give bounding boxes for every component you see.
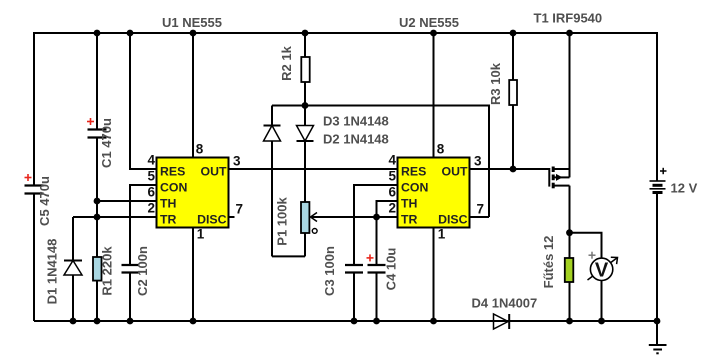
svg-text:C5 470u: C5 470u [37,176,52,226]
wire: U2 pin 7 DISC lead [470,216,490,218]
svg-text:7: 7 [236,202,244,217]
U1 internal pin names [160,165,227,227]
wire: R1 bottom lead [96,281,98,321]
wire: U1 pin 4 RES lead to +12V [130,32,157,169]
svg-text:V: V [595,260,609,282]
potentiometer P1 [272,202,309,256]
wire: C2 bottom lead [129,273,131,322]
svg-text:5: 5 [147,168,155,183]
polarity mark + of C1 [87,118,94,125]
svg-text:Fűtés 12: Fűtés 12 [541,236,556,289]
svg-text:TH: TH [160,197,177,211]
wire: voltmeter branch [570,233,602,259]
svg-text:D1 1N4148: D1 1N4148 [45,239,60,305]
resistor R1 [93,257,102,281]
polarity mark + of C5 [25,174,32,181]
wire: U2 pin 5 CON lead [354,185,398,265]
svg-text:U1 NE555: U1 NE555 [162,15,222,30]
wire: C1 top lead from rail [96,32,98,130]
svg-text:3: 3 [233,154,241,169]
svg-text:RES: RES [160,165,185,179]
ground symbol [649,321,667,353]
wire: U2 pin 2 TR lead [377,216,398,218]
svg-text:OUT: OUT [442,165,468,179]
wire: P1 wiper to U2 TR/TH [312,216,377,218]
P1 open terminal circle [312,229,317,234]
wire: U1 pin 5 CON lead [130,185,157,265]
svg-text:TR: TR [401,213,418,227]
wire: ground bottom rail [34,320,657,322]
svg-text:4: 4 [147,152,155,167]
svg-text:4: 4 [388,152,396,167]
wire: C3 bottom lead [353,273,355,322]
svg-text:TR: TR [160,213,177,227]
diode D1 [64,217,82,321]
wire: load bottom lead [569,282,571,321]
wire: U1 pin 7 DISC stub [229,216,235,218]
svg-text:1: 1 [197,227,205,242]
svg-text:8: 8 [437,142,445,157]
svg-text:OUT: OUT [201,165,227,179]
svg-text:2: 2 [388,201,396,216]
svg-text:2: 2 [147,201,155,216]
svg-text:3: 3 [474,154,482,169]
svg-text:D4 1N4007: D4 1N4007 [472,295,538,310]
diode D4 [494,314,510,329]
svg-text:R2 1k: R2 1k [279,45,294,80]
IC U1 NE555 box [157,158,229,228]
svg-text:RES: RES [401,165,426,179]
svg-text:DISC: DISC [197,213,226,227]
svg-text:P1 100k: P1 100k [275,197,290,246]
wire: +12V top rail [34,32,657,34]
resistor R3 [509,32,517,169]
wire: U1 pin 2 TR lead [73,216,157,218]
wire: U2 pin 6 TH lead [377,201,398,217]
svg-text:DISC: DISC [438,213,467,227]
wire: C4 top lead [376,217,378,265]
svg-text:6: 6 [147,184,155,199]
svg-text:D2 1N4148: D2 1N4148 [323,132,389,147]
transistor T1 IRF9540 P-MOSFET [549,167,569,189]
svg-text:12 V: 12 V [671,181,698,196]
wire: C1 bottom lead down to R1 [96,138,98,258]
svg-text:7: 7 [477,202,485,217]
polarity mark + of voltmeter [589,252,596,259]
wire: diode top node to U2 DISC [272,106,489,218]
U2 internal pin names [401,165,468,227]
polarity mark + of battery [660,168,667,174]
svg-text:8: 8 [196,142,204,157]
svg-text:R3 10k: R3 10k [488,62,503,105]
wire: voltmeter bottom lead [601,281,603,322]
svg-text:1: 1 [438,227,446,242]
svg-text:D3 1N4148: D3 1N4148 [323,113,389,128]
IC U2 NE555 box [398,158,470,228]
wire: U1 pin 6 TH lead [97,200,157,202]
capacitor C1 [88,130,107,138]
battery B1 12V [650,32,666,321]
svg-text:C1 470u: C1 470u [99,118,114,168]
resistor R2 [301,32,309,106]
wire: left supply rail (lower segment from C5) [33,194,35,322]
wire: U1 pin 3 OUT to U2 pin 4 RES [229,168,398,170]
capacitor C4 [368,265,386,273]
svg-text:CON: CON [401,181,428,195]
diode D3 [264,106,281,257]
svg-text:CON: CON [160,181,187,195]
svg-text:5: 5 [388,168,396,183]
P1 wiper arrowhead [311,213,318,222]
U1 pin numbers [147,142,243,242]
voltmeter V1 body [590,258,612,280]
wire: U1 pin 1 GND lead [192,228,194,322]
wire: left supply rail (upper segment to C5) [33,32,35,186]
svg-text:T1 IRF9540: T1 IRF9540 [534,11,603,26]
wire: T1 drain down to load node [569,186,571,258]
svg-text:C3 100n: C3 100n [322,246,337,296]
wire: U2 pin 1 GND lead [433,228,435,322]
wire: U1 pin 8 VCC lead [192,32,194,158]
svg-text:C2 100n: C2 100n [135,246,150,296]
wire: T1 source to +12V rail [569,32,571,177]
U2 pin numbers [388,142,484,242]
capacitor C2 [122,265,139,273]
svg-text:U2 NE555: U2 NE555 [399,15,459,30]
svg-text:R1 220k: R1 220k [100,246,115,296]
svg-text:TH: TH [401,197,418,211]
voltmeter arrow [588,257,618,280]
wire: C4 bottom lead [376,273,378,322]
polarity mark + of C4 [367,254,374,261]
diode D2 [297,106,314,203]
svg-text:C4 10u: C4 10u [384,248,399,291]
capacitor C3 [345,265,363,273]
svg-text:6: 6 [388,184,396,199]
resistor Futes 12 (heater load) [565,258,574,282]
wire: U2 pin 3 OUT to MOSFET gate [470,168,550,170]
capacitor C5 [25,186,44,194]
wire: U2 pin 8 VCC lead [433,32,435,158]
